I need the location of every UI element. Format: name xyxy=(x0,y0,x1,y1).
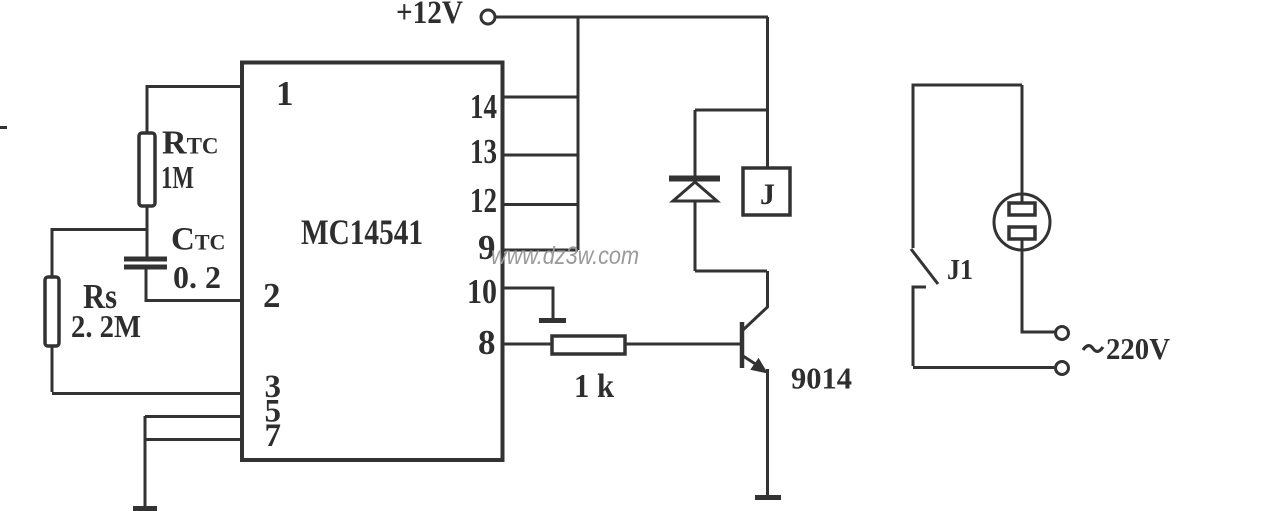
Rs value label 2.2M xyxy=(71,308,141,344)
svg-text:J1: J1 xyxy=(947,254,973,286)
wire pin 5 xyxy=(145,415,242,418)
lower 220V terminal circle xyxy=(1056,362,1069,375)
wire pins 5/7 to ground xyxy=(144,416,147,507)
svg-text:12: 12 xyxy=(470,181,497,220)
CTC value label 0.2 xyxy=(173,259,221,295)
RTC designator label xyxy=(162,125,219,162)
wire bottom to lower 220V terminal xyxy=(913,366,1054,369)
resistor R1 1k body xyxy=(552,336,625,354)
socket XS upper slot xyxy=(1009,203,1035,215)
socket XS lower slot xyxy=(1009,227,1035,239)
switch J1 lower contact xyxy=(913,287,926,366)
wire pin 12 to bus xyxy=(504,203,578,206)
wire +12V bus drop to pins 14-9 xyxy=(577,17,580,250)
wire capacitor to pin 2 xyxy=(146,269,242,301)
transistor Q1 base bar xyxy=(740,322,745,368)
wire +12V drop to relay branch xyxy=(766,17,769,168)
switch J1 left drop xyxy=(912,84,915,249)
wire pin 9 to bus xyxy=(504,249,578,252)
IC U1 MC14541 body xyxy=(242,63,503,461)
wire diode branch vertical top xyxy=(694,110,697,176)
pin 13 number label xyxy=(470,132,497,171)
svg-text:1: 1 xyxy=(276,74,294,113)
R1 value label 1k xyxy=(574,368,614,405)
socket XS circle xyxy=(994,194,1050,250)
diode D1 triangle xyxy=(673,182,717,201)
relay J box xyxy=(743,168,790,215)
pin 1 number label xyxy=(276,74,294,113)
resistor RTC body xyxy=(139,133,155,206)
svg-text:1 k: 1 k xyxy=(574,368,614,405)
scan artifact dash at left edge xyxy=(0,126,7,129)
svg-text:7: 7 xyxy=(265,418,282,454)
svg-text:RTC: RTC xyxy=(162,125,219,162)
switch J1 blade xyxy=(911,249,938,284)
pin 12 number label xyxy=(470,181,497,220)
Rs designator label xyxy=(83,277,117,316)
svg-text:www.dz3w.com: www.dz3w.com xyxy=(491,242,639,270)
wire pin 10 stub xyxy=(504,288,553,319)
svg-text:10: 10 xyxy=(467,272,497,311)
node +12V label xyxy=(396,0,463,31)
svg-text:8: 8 xyxy=(478,323,496,362)
pin 9 number label xyxy=(478,228,496,267)
transistor Q1 collector xyxy=(743,271,768,330)
diode D1 cathode bar xyxy=(669,176,720,182)
wire pin 13 to bus xyxy=(504,154,578,157)
IC U1 name label MC14541 xyxy=(301,212,423,252)
transistor Q1 label 9014 xyxy=(791,361,852,396)
svg-text:220V: 220V xyxy=(1106,331,1171,366)
wire pin 8 to resistor 1k xyxy=(504,343,552,346)
wire Rs top to cap junction xyxy=(52,228,147,231)
wire diode branch vertical bottom xyxy=(694,201,697,271)
transistor Q1 emitter with arrow xyxy=(743,356,767,373)
svg-text:CTC: CTC xyxy=(171,222,225,258)
capacitor CTC bottom plate xyxy=(124,265,167,270)
svg-text:2: 2 xyxy=(263,276,281,315)
ground at emitter xyxy=(755,495,781,500)
wire Rs top lead xyxy=(51,228,54,277)
RTC value label 1M xyxy=(161,159,194,195)
pin 5 number label xyxy=(265,394,282,430)
wire socket bottom to upper 220V terminal xyxy=(1022,238,1055,332)
pin 8 number label xyxy=(478,323,496,362)
CTC designator label xyxy=(171,222,225,258)
resistor Rs body xyxy=(45,277,59,346)
wire diode branch top xyxy=(695,109,767,112)
svg-text:+12V: +12V xyxy=(396,0,463,31)
wire pin 7 xyxy=(145,438,242,441)
svg-text:9014: 9014 xyxy=(791,361,852,396)
pin 3 number label xyxy=(265,369,282,405)
capacitor CTC top plate xyxy=(124,257,167,262)
svg-text:MC14541: MC14541 xyxy=(301,212,423,252)
pin 10 number label xyxy=(467,272,497,311)
ground bar at pin 10 xyxy=(539,318,566,323)
wire RTC top lead xyxy=(146,85,149,133)
wire diode branch bottom xyxy=(695,270,767,273)
pin 7 number label xyxy=(265,418,282,454)
ground at pins 5/7 xyxy=(133,506,157,511)
svg-text:13: 13 xyxy=(470,132,497,171)
svg-text:0. 2: 0. 2 xyxy=(173,259,221,295)
svg-text:2. 2M: 2. 2M xyxy=(71,308,141,344)
pin 2 number label xyxy=(263,276,281,315)
switch J1 top wire xyxy=(913,84,1022,87)
wire socket top lead xyxy=(1021,85,1024,204)
upper 220V terminal circle xyxy=(1056,327,1069,340)
wire RTC bottom to capacitor xyxy=(146,206,149,257)
+12V terminal circle xyxy=(481,10,495,24)
wire pin 1 to RTC xyxy=(147,85,242,88)
watermark www.dz3w.com xyxy=(491,242,639,270)
svg-text:14: 14 xyxy=(470,87,497,126)
switch J1 label xyxy=(947,254,973,286)
svg-text:1M: 1M xyxy=(161,159,194,195)
wire 1k to transistor base xyxy=(625,343,742,346)
pin 14 number label xyxy=(470,87,497,126)
relay J label xyxy=(760,178,775,211)
svg-text:J: J xyxy=(760,178,775,211)
wire pin 14 to bus xyxy=(504,96,578,99)
wire +12V rail horizontal xyxy=(495,16,768,19)
net label ~220V xyxy=(1083,331,1171,366)
wire emitter to ground xyxy=(766,369,769,496)
wire Rs bottom to pin 3 xyxy=(52,346,242,394)
